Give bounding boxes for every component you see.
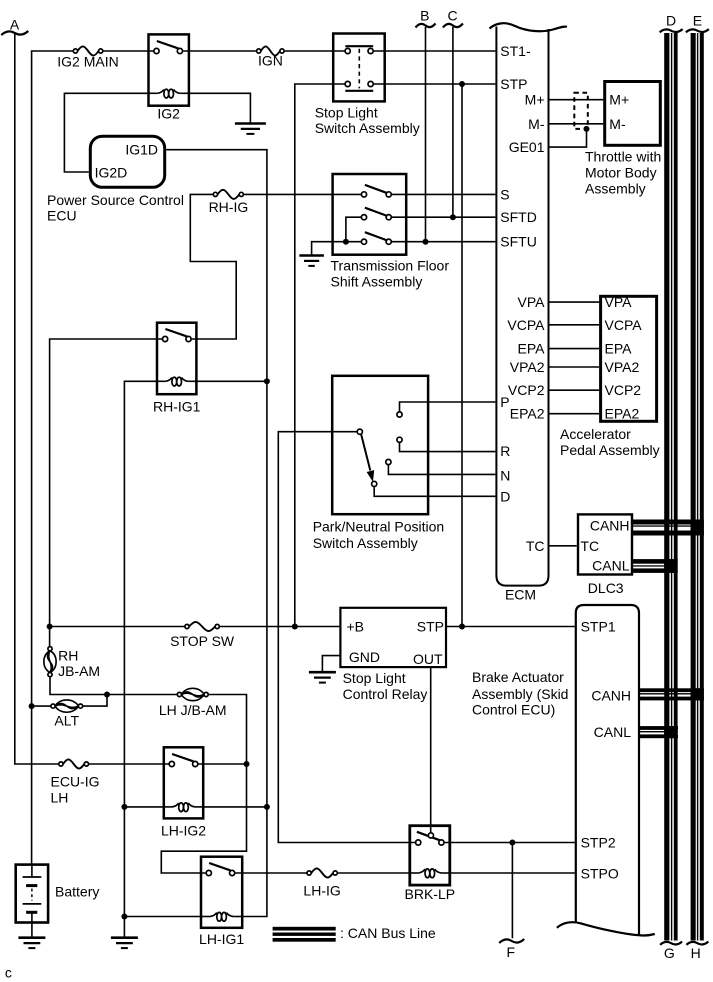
relay LH-IG2 switch blade — [172, 754, 194, 761]
wire RH JB-AM to junction-block rail — [50, 677, 177, 695]
svg-text:JB-AM: JB-AM — [58, 663, 100, 679]
svg-text:LH-IG1: LH-IG1 — [199, 931, 244, 947]
brake actuator bottom wavy break — [557, 922, 655, 935]
svg-text:LH J/B-AM: LH J/B-AM — [159, 702, 227, 718]
svg-text:EPA2: EPA2 — [510, 406, 545, 422]
wire node C drop to SFTD — [452, 27, 454, 217]
ECM box — [496, 27, 548, 586]
svg-text:ECU-IG: ECU-IG — [51, 774, 100, 790]
node H break (bottom) — [686, 942, 708, 945]
wire LH-IG2 coil right to IG1D rail — [203, 806, 267, 808]
fuse IG2 MAIN — [73, 49, 77, 53]
svg-text:M-: M- — [528, 116, 545, 132]
svg-text:IG2D: IG2D — [95, 164, 128, 180]
svg-text:VPA: VPA — [518, 294, 546, 310]
svg-text:CANH: CANH — [591, 688, 631, 704]
svg-text:Power Source Control: Power Source Control — [47, 192, 184, 208]
stop light switch 2 contacts (closed) — [345, 81, 350, 86]
transmission switch 3 blade — [365, 232, 388, 240]
svg-text:: CAN Bus Line: : CAN Bus Line — [340, 925, 436, 941]
svg-text:Brake Actuator: Brake Actuator — [472, 669, 564, 685]
svg-text:STPO: STPO — [581, 865, 619, 881]
svg-text:Motor Body: Motor Body — [585, 165, 657, 181]
wire IG1D to relay coils rail — [166, 150, 267, 917]
relay RH-IG1 coil — [157, 380, 165, 382]
node A break — [1, 31, 28, 35]
svg-text:Transmission Floor: Transmission Floor — [331, 258, 450, 274]
junction LH-IG1 coil / ground rail — [121, 914, 127, 920]
relay RH-IG1 box — [157, 323, 196, 395]
transmission floor shift assembly box — [333, 174, 407, 255]
svg-text:EPA: EPA — [518, 341, 546, 357]
svg-text:Stop Light: Stop Light — [315, 104, 378, 120]
svg-text:VCP2: VCP2 — [508, 382, 545, 398]
relay LH-IG2 coil — [164, 806, 172, 808]
transmission switch 2 contacts — [361, 215, 366, 220]
wire stop light switch 2 to ECM STP — [373, 83, 496, 85]
relay RH-IG1 switch contacts — [163, 336, 168, 341]
svg-text:IG1D: IG1D — [125, 142, 158, 158]
svg-text:SFTU: SFTU — [500, 234, 537, 250]
battery — [16, 865, 48, 923]
svg-text:Shift Assembly: Shift Assembly — [331, 273, 423, 289]
svg-text:F: F — [507, 944, 516, 960]
CAN branch Brake Actuator CANL to bus D — [639, 726, 678, 730]
svg-text:ALT: ALT — [54, 713, 79, 729]
wire relay GND to ground — [322, 656, 341, 673]
node C break — [443, 24, 463, 28]
relay LH-IG2 switch contacts — [169, 761, 174, 766]
junction SFTU / node B — [423, 239, 429, 245]
node F break (bottom) — [499, 939, 524, 943]
CAN bus line E (vertical) — [691, 33, 696, 941]
wire LH J/B-AM down-jog to LH-IG1 switch — [161, 695, 246, 874]
svg-text:VCPA: VCPA — [507, 317, 545, 333]
stop light switch 1 contacts (closed) — [345, 48, 350, 53]
wire IG2 relay coil to IG2D — [64, 93, 148, 172]
stop light switch assembly box — [333, 34, 385, 102]
wire transmission switch 1 to ECM S — [391, 193, 495, 195]
svg-text:Assembly: Assembly — [585, 181, 646, 197]
wire ECM VCP2 to pedal VCP2 — [550, 389, 600, 391]
wire M- node to ECM GE01 — [550, 129, 587, 147]
svg-text:RH-IG: RH-IG — [209, 199, 249, 215]
wire park/neutral common down to BRK-LP switch — [278, 432, 415, 843]
junction stop light switch feed / +B wire — [292, 624, 298, 630]
fusible link LH J/B-AM — [177, 692, 181, 696]
fuse IGN — [257, 49, 261, 53]
node B break — [416, 24, 436, 28]
svg-text:IGN: IGN — [258, 52, 283, 68]
park/neutral position switch assembly box — [332, 376, 428, 514]
DLC3 box — [578, 514, 632, 574]
fusible link ALT — [51, 704, 55, 708]
svg-text:R: R — [500, 443, 510, 459]
relay LH-IG1 switch blade — [209, 863, 230, 870]
svg-text:RH: RH — [58, 647, 78, 663]
wire LH-IG1 coil left to ground rail — [124, 916, 201, 918]
svg-text:BRK-LP: BRK-LP — [405, 886, 456, 902]
relay LH-IG1 switch contacts — [206, 870, 211, 875]
throttle with motor body assembly box — [605, 82, 661, 146]
relay LH-IG1 coil — [201, 916, 210, 918]
CAN branch DLC3 CANL to bus D — [632, 559, 678, 564]
svg-text:Stop Light: Stop Light — [343, 670, 406, 686]
svg-text:E: E — [693, 13, 702, 29]
ground battery — [18, 936, 45, 939]
fuse RH-IG — [213, 192, 217, 196]
wire park/neutral P to ECM P — [400, 402, 496, 412]
relay IG2 switch contacts — [154, 48, 159, 53]
junction STOP SW rail / RH JB-AM drop — [47, 624, 53, 630]
wire ECM VCPA to pedal VCPA — [550, 324, 600, 326]
junction STP2 wire / F drop — [509, 840, 515, 846]
wire STOP SW rail to relay +B — [50, 626, 185, 628]
relay IG2 coil — [149, 92, 158, 94]
wire park/neutral N to ECM N — [388, 465, 495, 475]
svg-text:c: c — [5, 965, 12, 981]
svg-text:STOP SW: STOP SW — [170, 633, 235, 649]
svg-text:H: H — [691, 945, 701, 961]
fuse LH-IG — [307, 871, 311, 875]
park/neutral common contact — [357, 429, 362, 434]
junction RH-IG1 coil / IG1D rail — [264, 378, 270, 384]
svg-text:OUT: OUT — [413, 651, 443, 667]
wire relay OUT down to BRK-LP — [430, 667, 432, 833]
wire LH-IG2 switch to J/B rail — [198, 763, 247, 765]
wire IGN to stop light switch 1 — [284, 50, 345, 52]
svg-text:CANL: CANL — [594, 724, 632, 740]
relay IG2 box — [149, 34, 189, 105]
wire park/neutral D to ECM D — [374, 487, 495, 497]
stop light control relay box — [340, 608, 446, 667]
junction transmission switch 2-3 — [343, 239, 349, 245]
wire RH-IG1 switch to STOP SW rail — [50, 339, 163, 647]
svg-text:Pedal Assembly: Pedal Assembly — [560, 442, 660, 458]
CAN bus line legend symbol — [273, 927, 336, 931]
svg-text:B: B — [420, 8, 429, 24]
ground stop light control relay — [309, 671, 336, 674]
wire ECM M+ to throttle M+ — [550, 99, 604, 101]
wire battery positive feed up left side to IG2 MAIN — [32, 51, 74, 865]
wire IG2 MAIN to IG2 relay switch — [103, 50, 154, 52]
svg-text:+B: +B — [347, 619, 365, 635]
transmission switch 3 contacts — [361, 239, 366, 244]
wire ECM EPA to pedal EPA — [550, 348, 600, 350]
wire relay STP to brake actuator STP1 — [447, 626, 575, 628]
transmission switch 2 blade — [365, 208, 388, 216]
junction LH-IG2 coil / IG1D rail — [264, 804, 270, 810]
svg-text:Battery: Battery — [55, 884, 99, 900]
transmission switch 1 blade — [365, 185, 388, 193]
svg-text:M+: M+ — [525, 92, 545, 108]
wire transmission switch 3 to ECM SFTU — [391, 241, 495, 243]
wire A-line to ECU-IG LH fuse — [15, 33, 59, 764]
wire LH-IG1 switch to LH-IG fuse to BRK-LP coil — [235, 872, 307, 874]
ECM top wavy break — [490, 23, 567, 31]
svg-text:C: C — [447, 8, 457, 24]
wire ALT to battery rail — [32, 705, 51, 707]
svg-text:LH: LH — [51, 790, 69, 806]
wire RH-IG jog down to RH-IG1 switch — [190, 194, 236, 339]
svg-text:Park/Neutral Position: Park/Neutral Position — [313, 519, 445, 535]
wire LH-IG2 coil left to ground rail — [124, 806, 164, 808]
wire ECU-IG LH to LH-IG2 switch — [89, 763, 170, 765]
park/neutral selector arrow — [361, 435, 370, 471]
wire stop light switch 2 feed from +B node — [295, 84, 346, 627]
ground IG2 relay coil — [235, 122, 266, 125]
junction M- connector to GE01 — [584, 126, 590, 132]
wire node B drop to SFTU — [425, 27, 427, 242]
svg-text:LH-IG2: LH-IG2 — [161, 823, 206, 839]
wire BRK-LP coil to brake actuator STPO — [450, 872, 575, 874]
svg-text:CANH: CANH — [590, 518, 630, 534]
CAN bus line D (vertical) — [664, 33, 669, 941]
svg-text:DLC3: DLC3 — [588, 580, 624, 596]
junction LH-IG2 switch / J/B rail — [244, 761, 250, 767]
fuse STOP SW — [185, 624, 189, 628]
node D break (top) — [660, 29, 683, 32]
wire ECM M- to throttle M- — [550, 123, 604, 125]
junction SFTD / node C — [450, 214, 456, 220]
svg-text:SFTD: SFTD — [500, 209, 537, 225]
relay BRK-LP box — [410, 826, 450, 885]
park/neutral P contact — [397, 412, 402, 417]
relay BRK-LP switch blade — [417, 832, 442, 841]
park/neutral R contact — [397, 437, 402, 442]
junction LH-IG2 coil / ground rail — [121, 804, 127, 810]
svg-text:G: G — [664, 945, 675, 961]
svg-text:IG2 MAIN: IG2 MAIN — [57, 54, 118, 70]
wire IG2 relay to IGN fuse — [182, 50, 256, 52]
svg-text:S: S — [500, 186, 509, 202]
wire STP node down to STP1 node — [461, 84, 463, 627]
wire transmission switch 2 to ECM SFTD — [391, 216, 495, 218]
wire ALT to JB-AM node — [83, 695, 107, 707]
svg-text:P: P — [500, 394, 509, 410]
relay LH-IG1 box — [201, 857, 242, 928]
svg-text:TC: TC — [526, 538, 545, 554]
relay IG2 switch blade — [157, 41, 179, 48]
svg-text:VPA: VPA — [605, 294, 633, 310]
svg-text:ECM: ECM — [505, 587, 536, 603]
wire ECM TC to DLC3 TC — [550, 545, 577, 547]
wire stop light switch 1 to ECM ST1- — [373, 50, 496, 52]
wire ECM VPA2 to pedal VPA2 — [550, 366, 600, 368]
svg-text:N: N — [500, 468, 510, 484]
svg-text:VCP2: VCP2 — [605, 382, 642, 398]
svg-text:Control Relay: Control Relay — [343, 686, 428, 702]
ground LH-IG relay coils — [111, 936, 138, 939]
wire park/neutral R to ECM R — [400, 442, 496, 451]
wire ECM EPA2 to pedal EPA2 — [550, 413, 600, 415]
svg-text:Control ECU): Control ECU) — [472, 702, 555, 718]
wire RH-IG1 coil right to IG1D rail — [196, 380, 267, 382]
wire transmission switch 2 left join — [346, 217, 362, 242]
svg-text:GE01: GE01 — [509, 139, 545, 155]
accelerator pedal assembly box — [601, 296, 657, 421]
svg-text:Assembly (Skid: Assembly (Skid — [472, 686, 568, 702]
svg-text:VCPA: VCPA — [605, 317, 643, 333]
svg-text:Throttle with: Throttle with — [585, 149, 661, 165]
junction STP down-wire / STP1 wire — [459, 624, 465, 630]
svg-text:Switch Assembly: Switch Assembly — [315, 120, 420, 136]
svg-text:TC: TC — [581, 538, 600, 554]
svg-text:VPA2: VPA2 — [510, 359, 545, 375]
transmission switch 1 contacts — [361, 192, 366, 197]
svg-text:GND: GND — [349, 649, 380, 665]
svg-text:IG2: IG2 — [157, 106, 180, 122]
park/neutral N contact — [386, 459, 391, 464]
svg-text:ST1-: ST1- — [500, 43, 531, 59]
svg-text:VPA2: VPA2 — [605, 359, 640, 375]
svg-text:Switch Assembly: Switch Assembly — [313, 535, 418, 551]
park/neutral D contact — [372, 481, 377, 486]
wire transmission switch 3 to ground — [312, 242, 362, 256]
svg-text:D: D — [500, 488, 510, 504]
svg-text:STP: STP — [417, 619, 444, 635]
node E break (top) — [686, 29, 709, 32]
fuse ECU-IG LH — [59, 762, 63, 766]
junction JB-AM rail / ALT branch — [104, 692, 110, 698]
wire RH-IG to transmission switch 1 — [243, 193, 361, 195]
wire STP2 node down to F — [511, 843, 513, 939]
svg-text:M+: M+ — [609, 92, 629, 108]
relay LH-IG2 box — [164, 747, 203, 818]
wire RH-IG1 coil left down to grounds — [124, 381, 157, 937]
svg-text:M-: M- — [609, 116, 626, 132]
wire IG2 relay coil to ground — [189, 93, 251, 123]
svg-text:RH-IG1: RH-IG1 — [153, 398, 201, 414]
wire BRK-LP switch to brake actuator STP2 — [444, 842, 575, 844]
power source control ECU box — [90, 136, 164, 187]
throttle connector (dashed) — [574, 93, 588, 129]
relay RH-IG1 switch blade — [165, 329, 187, 336]
svg-text:STP1: STP1 — [581, 619, 616, 635]
ground transmission shift assembly — [299, 254, 324, 257]
relay BRK-LP pivot contact — [428, 833, 433, 838]
svg-text:STP: STP — [500, 76, 527, 92]
CAN branch Brake Actuator CANH to bus E — [639, 688, 704, 692]
node G break (bottom) — [660, 942, 682, 945]
brake actuator assembly box — [576, 605, 639, 934]
wire ECM VPA to pedal VPA — [550, 301, 600, 303]
junction battery rail / ALT — [29, 703, 35, 709]
svg-text:Accelerator: Accelerator — [560, 426, 631, 442]
junction STP wire — [459, 81, 465, 87]
relay BRK-LP coil — [410, 872, 419, 874]
svg-text:ECU: ECU — [47, 208, 77, 224]
svg-text:D: D — [666, 13, 676, 29]
stop light switch gang dashed link — [358, 49, 360, 89]
svg-text:EPA2: EPA2 — [605, 406, 640, 422]
svg-text:STP2: STP2 — [581, 835, 616, 851]
fusible link RH JB-AM (vertical) — [48, 647, 52, 651]
CAN branch DLC3 CANH to bus E — [632, 520, 704, 525]
svg-text:CANL: CANL — [592, 557, 630, 573]
svg-text:EPA: EPA — [605, 341, 633, 357]
relay BRK-LP switch contacts — [416, 840, 421, 845]
svg-text:A: A — [10, 17, 20, 33]
svg-text:LH-IG: LH-IG — [303, 883, 340, 899]
